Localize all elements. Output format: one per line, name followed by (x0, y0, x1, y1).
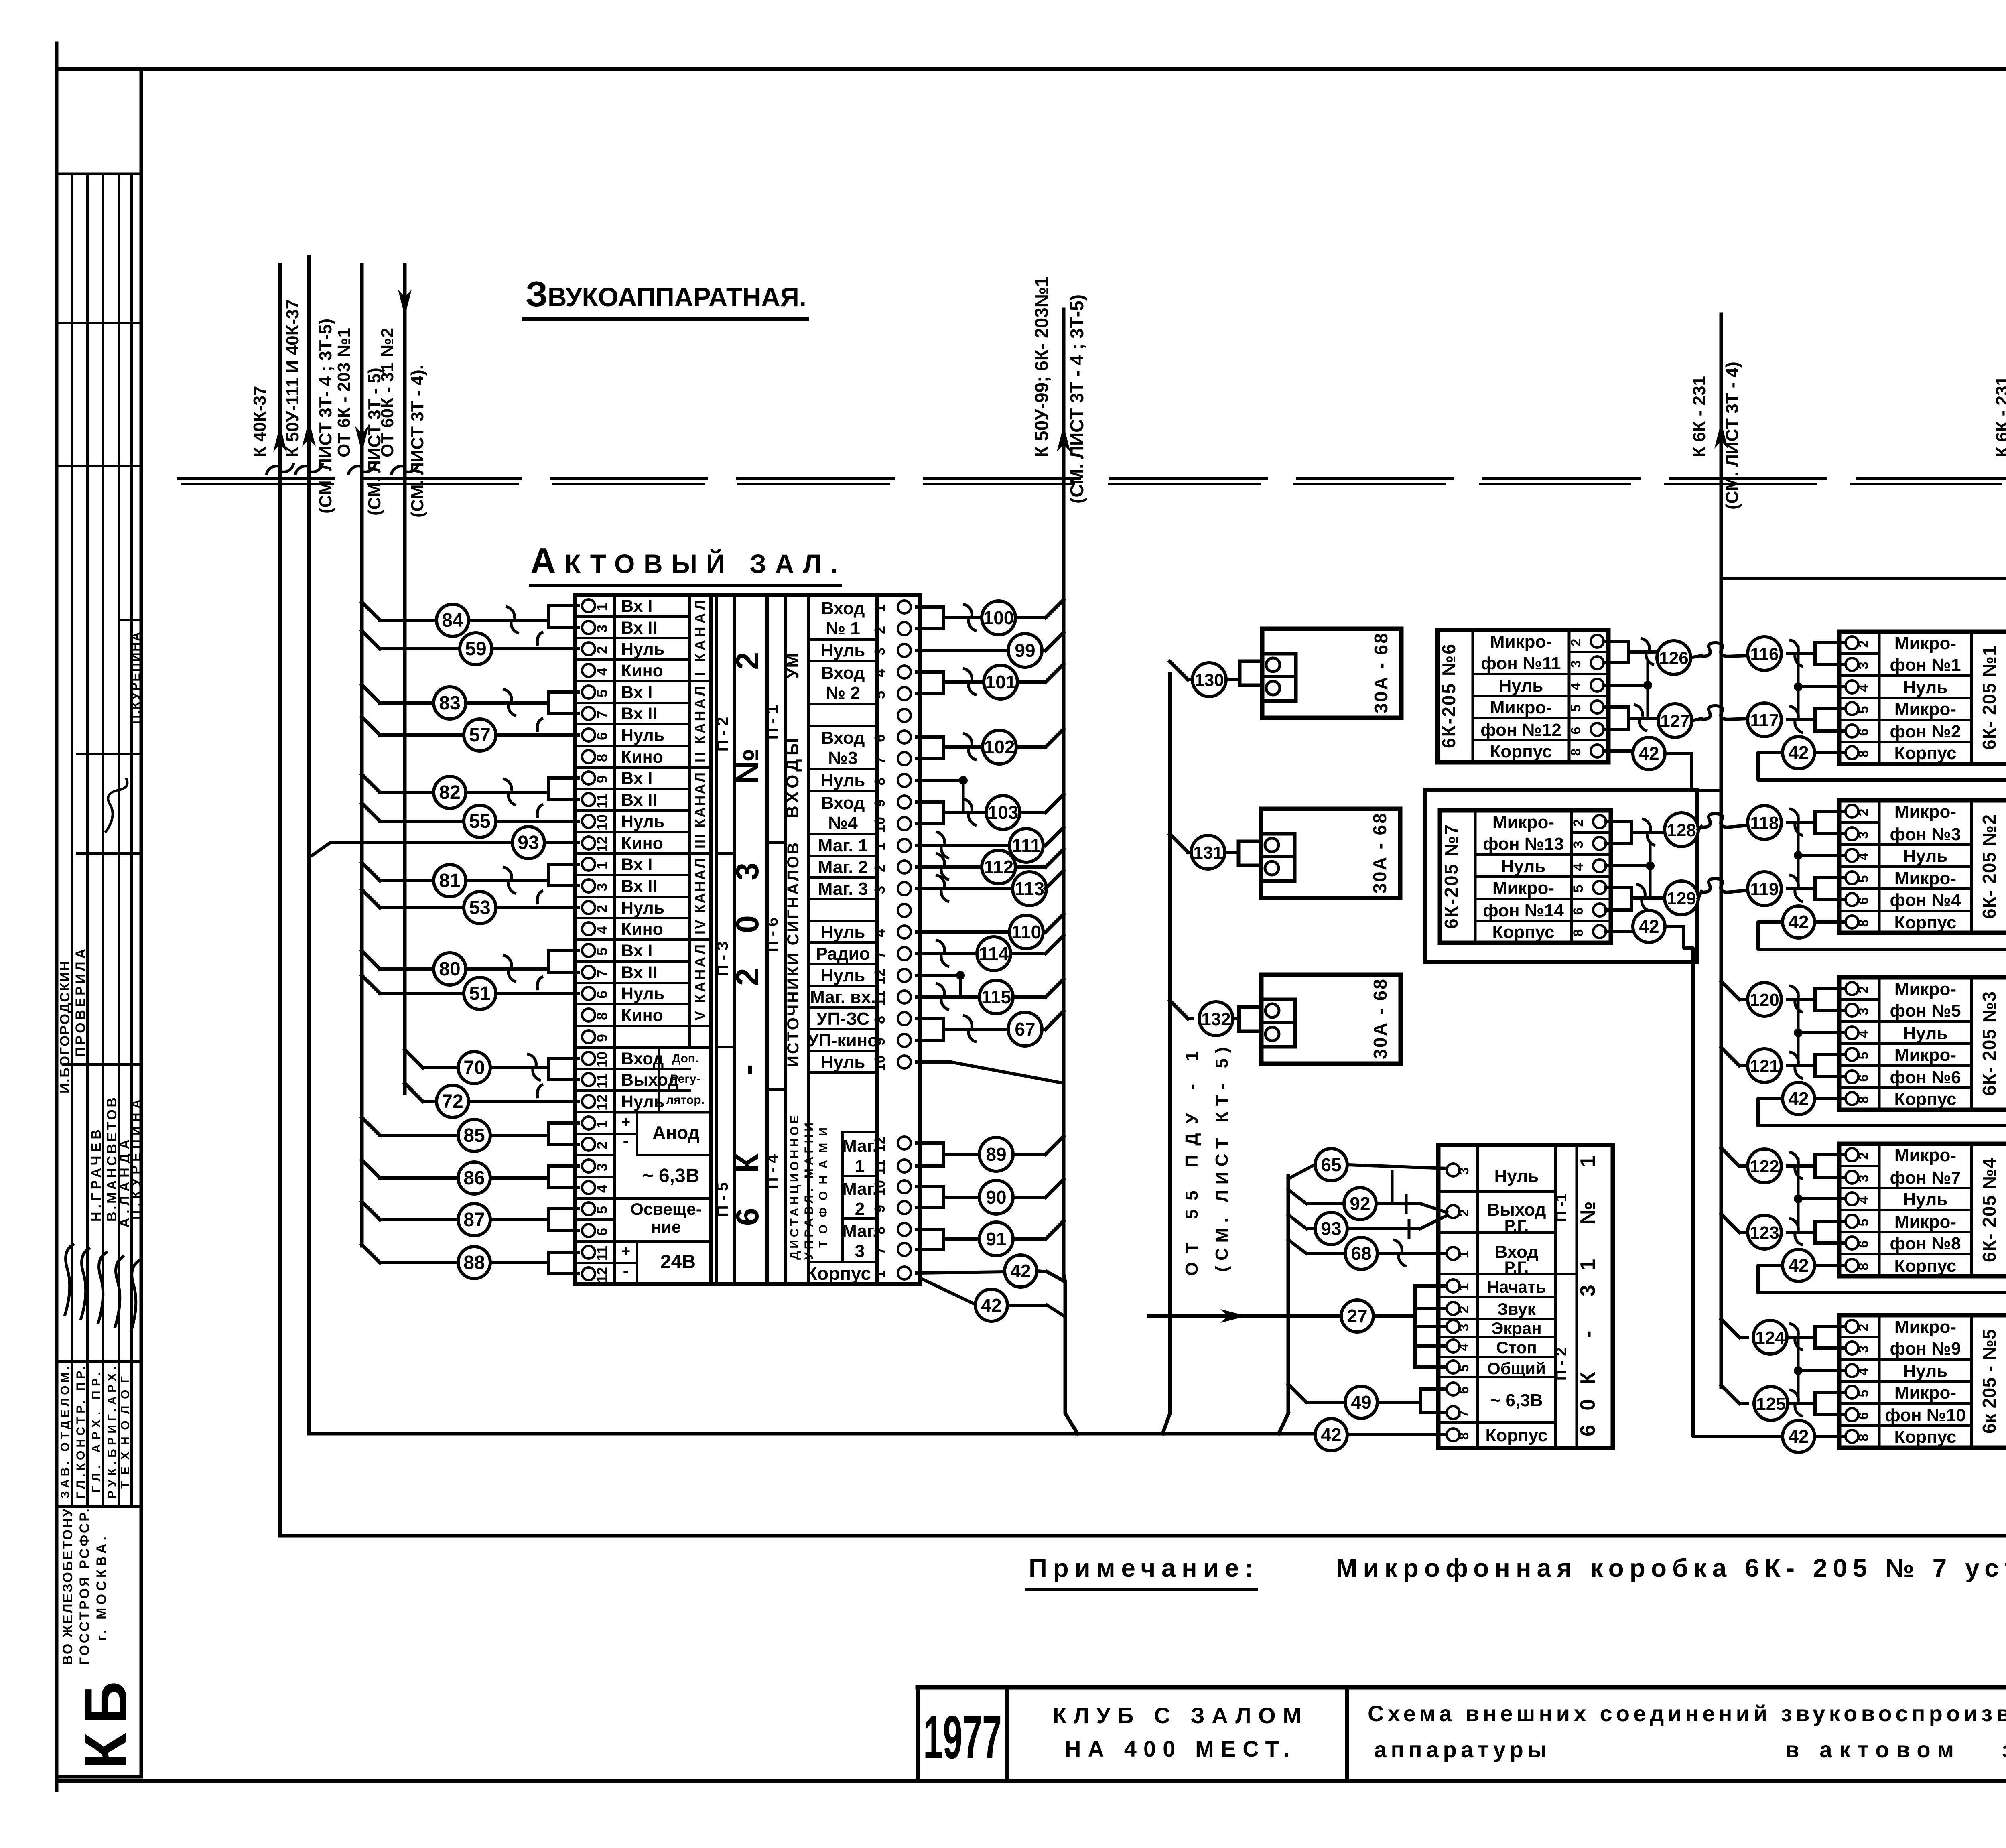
wire 99 (916, 632, 1064, 667)
svg-text:Стоп: Стоп (1496, 1338, 1537, 1357)
svg-text:Корпус: Корпус (1894, 913, 1956, 932)
wire 118 (1748, 806, 1846, 839)
svg-text:Нуль: Нуль (621, 726, 664, 745)
svg-text:г. МОСКВА.: г. МОСКВА. (94, 1537, 109, 1641)
svg-text:6: 6 (1856, 1412, 1871, 1420)
svg-text:10: 10 (871, 1180, 888, 1196)
svg-text:5: 5 (594, 689, 610, 697)
svg-text:2: 2 (1856, 809, 1871, 816)
svg-text:93: 93 (1321, 1218, 1341, 1239)
svg-text:Кино: Кино (621, 661, 663, 680)
svg-text:Вх II: Вх II (621, 790, 657, 810)
svg-text:6К- 205 №3: 6К- 205 №3 (1979, 991, 2000, 1096)
local cable trunk to 60K-31 (1279, 1176, 1288, 1434)
svg-text:Корпус: Корпус (1485, 1426, 1547, 1445)
svg-text:П - 2: П - 2 (714, 717, 731, 752)
svg-text:Нуль: Нуль (621, 640, 664, 659)
svg-text:УП-ЗС: УП-ЗС (816, 1009, 869, 1029)
svg-text:4: 4 (1456, 1343, 1472, 1351)
wire 88 (362, 1245, 578, 1279)
wire 112 (916, 849, 1064, 884)
wire 93 (kino) (312, 827, 578, 859)
svg-text:55: 55 (469, 811, 490, 832)
svg-text:Кино: Кино (621, 834, 663, 853)
svg-text:116: 116 (1750, 644, 1779, 664)
cable K 6K-231 (left) (1689, 314, 1742, 578)
svg-text:8: 8 (1456, 1432, 1472, 1440)
wire 110 (916, 914, 1064, 949)
svg-text:51: 51 (469, 983, 490, 1004)
svg-text:фон №13: фон №13 (1483, 834, 1564, 854)
svg-text:65: 65 (1321, 1154, 1341, 1175)
svg-text:132: 132 (1201, 1009, 1230, 1029)
svg-text:5: 5 (594, 948, 610, 956)
svg-text:27: 27 (1347, 1306, 1367, 1326)
wire 84 (362, 602, 578, 636)
loudspeaker box 30A-68 no.3 (1239, 975, 1401, 1064)
svg-text:Кино: Кино (621, 920, 663, 939)
svg-text:4: 4 (1568, 682, 1584, 690)
svg-text:4: 4 (594, 1185, 610, 1193)
svg-text:4: 4 (594, 668, 610, 676)
wire 121 (1748, 1049, 1846, 1082)
svg-text:2: 2 (871, 864, 888, 872)
svg-text:8: 8 (1856, 750, 1871, 758)
svg-text:Микро-: Микро- (1894, 634, 1956, 653)
svg-text:ВХОДЫ: ВХОДЫ (783, 738, 802, 818)
svg-text:1: 1 (855, 1156, 865, 1176)
svg-text:42: 42 (1639, 743, 1659, 764)
svg-text:1977: 1977 (923, 1703, 1002, 1771)
wire link 126-116 (1691, 643, 1748, 658)
svg-text:125: 125 (1756, 1394, 1785, 1414)
svg-text:3: 3 (871, 886, 888, 894)
svg-text:8: 8 (1571, 929, 1586, 937)
svg-text:42: 42 (1321, 1424, 1341, 1445)
wire 59 (362, 631, 578, 665)
svg-text:Корпус: Корпус (1894, 1089, 1956, 1109)
svg-text:П - 5: П - 5 (714, 1182, 731, 1217)
svg-text:К 50У-111 И 40К-37: К 50У-111 И 40К-37 (283, 299, 303, 457)
svg-text:6: 6 (1856, 897, 1871, 905)
svg-text:90: 90 (986, 1187, 1006, 1208)
svg-text:фон №12: фон №12 (1480, 720, 1561, 740)
svg-text:126: 126 (1659, 648, 1688, 668)
svg-text:102: 102 (984, 737, 1015, 757)
wire 117 (1748, 703, 1846, 737)
svg-text:3: 3 (594, 1163, 610, 1171)
room label Звукоаппаратная (524, 274, 807, 319)
svg-text:8: 8 (1856, 920, 1871, 927)
svg-text:99: 99 (1015, 640, 1035, 661)
cable from 6K-203 N1 (334, 265, 384, 1246)
svg-text:Нуль: Нуль (621, 984, 664, 1003)
svg-text:8: 8 (1856, 1096, 1871, 1104)
svg-text:Микро-: Микро- (1894, 1317, 1956, 1337)
svg-text:Нуль: Нуль (621, 898, 664, 918)
svg-text:Вход: Вход (821, 793, 865, 813)
wire 126 (1604, 638, 1691, 674)
P-5 power cells (Anod, 6.3V, lighting, 24V) (615, 1112, 711, 1284)
trunk for 30A-68 boxes (1163, 674, 1170, 1434)
svg-text:84: 84 (442, 610, 463, 631)
microphone box 6K-205 N7 (installed in foyer) (1425, 790, 1697, 962)
wire 68 (1288, 1237, 1447, 1269)
wire 129 (1606, 881, 1698, 915)
ground bus wire 42 into 60K-31 (309, 1419, 1447, 1451)
wire link 129-119 (1698, 879, 1748, 898)
svg-text:Корпус: Корпус (1894, 743, 1956, 763)
svg-text:8: 8 (1856, 1263, 1871, 1271)
svg-text:И.БОГОРОДСКИН: И.БОГОРОДСКИН (57, 961, 73, 1093)
svg-text:3: 3 (1571, 841, 1586, 849)
wire 89 (916, 1136, 1064, 1171)
cable K 40K-37 (250, 265, 294, 485)
svg-text:88: 88 (463, 1252, 485, 1273)
svg-text:118: 118 (1750, 813, 1779, 833)
ground wire 42 from trunk (920, 1278, 1064, 1321)
svg-text:6: 6 (1856, 1074, 1871, 1082)
svg-text:42: 42 (1788, 742, 1809, 763)
svg-text:3: 3 (1856, 1346, 1871, 1353)
svg-text:5: 5 (1856, 875, 1871, 883)
svg-text:Вход: Вход (621, 1049, 664, 1068)
cable K 50U-111 and 40K-37 (283, 257, 335, 1434)
svg-text:Микро-: Микро- (1894, 1212, 1956, 1232)
svg-text:№ 1: № 1 (826, 619, 860, 638)
svg-text:Микро-: Микро- (1894, 1145, 1956, 1165)
plug labels P-1 P-6 P-4 column (763, 705, 786, 1189)
cable K 50U-99; 6K-203 N1 (1031, 276, 1087, 1275)
svg-text:10: 10 (594, 814, 610, 831)
svg-text:6: 6 (594, 732, 610, 740)
svg-text:Р.Г.: Р.Г. (1504, 1259, 1529, 1276)
svg-text:1: 1 (871, 843, 888, 851)
svg-text:+: + (621, 1114, 630, 1131)
svg-text:5: 5 (1856, 1052, 1871, 1060)
svg-text:7: 7 (871, 951, 888, 959)
svg-text:(СМ. ЛИСТ 3Т - 4): (СМ. ЛИСТ 3Т - 4) (1722, 361, 1742, 510)
null junction to 103 (916, 776, 968, 812)
svg-text:42: 42 (1788, 1255, 1809, 1276)
svg-text:1: 1 (871, 604, 888, 612)
ground wire 42 of 6К- 205 №1 (1758, 737, 2006, 780)
ground wire 42 of 6К- 205 №4 (1758, 1249, 2006, 1293)
svg-text:103: 103 (988, 802, 1019, 823)
svg-text:фон №11: фон №11 (1481, 654, 1561, 673)
svg-text:3: 3 (594, 625, 610, 633)
svg-text:100: 100 (983, 607, 1014, 628)
svg-text:6: 6 (1568, 727, 1584, 735)
svg-text:7: 7 (594, 969, 610, 977)
svg-text:Корпус: Корпус (1894, 1427, 1956, 1447)
svg-text:8: 8 (1568, 749, 1584, 756)
svg-text:2: 2 (1571, 819, 1586, 827)
cable from 60K-31 N2 (378, 265, 427, 1093)
svg-text:П -1: П -1 (1553, 1193, 1570, 1222)
svg-text:6К-205 №6: 6К-205 №6 (1438, 644, 1459, 748)
svg-text:6к 205 - №5: 6к 205 - №5 (1979, 1329, 2000, 1434)
wall separator between rooms (dashed break lines) (177, 479, 2006, 484)
svg-text:127: 127 (1660, 711, 1689, 731)
svg-text:3: 3 (1568, 660, 1584, 668)
svg-text:8: 8 (871, 1016, 888, 1024)
ground wire 42 of 6К- 205 №2 (1758, 906, 2006, 949)
svg-text:-: - (623, 1131, 629, 1151)
svg-text:Нуль: Нуль (1903, 1024, 1948, 1043)
wire 116 (1748, 637, 1846, 670)
svg-text:2: 2 (594, 646, 610, 654)
svg-text:10: 10 (871, 1055, 888, 1071)
null link box 6К- 205 №2 (1794, 816, 1846, 885)
wire 67 (916, 1011, 1064, 1046)
svg-text:119: 119 (1750, 879, 1779, 899)
svg-text:5: 5 (594, 1206, 610, 1214)
svg-text:8: 8 (871, 1227, 888, 1235)
svg-text:Анод: Анод (652, 1122, 700, 1143)
svg-text:113: 113 (1015, 878, 1044, 899)
svg-text:ние: ние (651, 1217, 681, 1236)
additional regulator cell (659, 1048, 711, 1112)
svg-text:6К- 205 №4: 6К- 205 №4 (1979, 1158, 2000, 1262)
svg-text:К 40К-37: К 40К-37 (250, 386, 270, 457)
wire 87 (362, 1202, 578, 1236)
svg-text:42: 42 (1639, 916, 1659, 937)
svg-text:6К- 205 №1: 6К- 205 №1 (1979, 646, 2000, 750)
svg-text:фон №2: фон №2 (1890, 722, 1961, 741)
svg-text:Кино: Кино (621, 1006, 663, 1025)
svg-text:9: 9 (871, 799, 888, 807)
svg-text:6: 6 (594, 1228, 610, 1236)
svg-text:(СМ. ЛИСТ 3Т - 4 ; 3Т-5): (СМ. ЛИСТ 3Т - 4 ; 3Т-5) (1066, 294, 1087, 504)
right terminal rows of 6K-203 N2 (808, 596, 911, 1072)
svg-text:12: 12 (594, 1267, 610, 1283)
ground wire 42 of N6 (1604, 737, 1720, 791)
svg-text:5: 5 (1568, 705, 1584, 712)
svg-text:3: 3 (1856, 1175, 1871, 1182)
svg-text:Вх I: Вх I (621, 855, 652, 874)
wire 83 (362, 685, 578, 719)
wire 101 (916, 664, 1064, 699)
svg-text:1: 1 (1456, 1283, 1472, 1291)
svg-text:11: 11 (594, 793, 610, 808)
svg-text:42: 42 (1788, 912, 1809, 932)
wire 102 (916, 729, 1064, 764)
wire 92 (1288, 1188, 1447, 1220)
year 1977 (923, 1703, 1002, 1771)
wire 27 from PDU-1 (1148, 1286, 1447, 1367)
svg-text:Вход: Вход (821, 663, 865, 683)
microphone box 6к 205 - №5 (1839, 1315, 2006, 1448)
svg-text:117: 117 (1750, 711, 1779, 730)
svg-text:Вход: Вход (821, 728, 865, 748)
svg-text:фон №5: фон №5 (1890, 1001, 1961, 1021)
wire 51 (362, 975, 578, 1009)
svg-text:2: 2 (1456, 1306, 1472, 1314)
wire 81 (362, 863, 578, 897)
svg-text:Корпус: Корпус (1492, 922, 1554, 942)
svg-text:123: 123 (1750, 1223, 1779, 1243)
svg-text:Нуль: Нуль (821, 1052, 865, 1072)
wire 91 (916, 1221, 1064, 1256)
svg-text:Звук: Звук (1497, 1300, 1536, 1318)
svg-text:Нуль: Нуль (821, 641, 865, 660)
svg-text:УП-кино: УП-кино (808, 1031, 878, 1050)
svg-text:3: 3 (1456, 1168, 1472, 1175)
svg-text:Микро-: Микро- (1492, 812, 1554, 832)
svg-text:1: 1 (594, 603, 610, 611)
svg-text:Корпус: Корпус (806, 1263, 871, 1284)
svg-text:5: 5 (1571, 885, 1586, 893)
svg-text:П - 3: П - 3 (714, 942, 731, 977)
svg-text:57: 57 (469, 725, 490, 746)
svg-text:4: 4 (1856, 1368, 1871, 1375)
svg-text:фон №3: фон №3 (1890, 824, 1961, 844)
wire 57 (362, 717, 578, 751)
svg-text:Нуль: Нуль (1499, 676, 1543, 696)
svg-text:2: 2 (594, 905, 610, 913)
svg-text:2: 2 (1568, 639, 1584, 646)
svg-text:6: 6 (1856, 729, 1871, 736)
svg-text:Микро-: Микро- (1894, 869, 1956, 888)
wire link 128-118 (1698, 814, 1748, 830)
svg-text:12: 12 (871, 1136, 888, 1152)
svg-text:№4: №4 (828, 813, 858, 833)
svg-text:Микро-: Микро- (1490, 698, 1552, 717)
wire link 127-117 (1692, 706, 1748, 721)
wire 55 (362, 803, 578, 837)
svg-text:Вх II: Вх II (621, 877, 657, 896)
svg-text:81: 81 (439, 870, 460, 892)
svg-text:Вх I: Вх I (621, 597, 652, 616)
wire 115 (916, 979, 1064, 1014)
svg-text:4: 4 (871, 929, 888, 937)
right bottom rows Mag.1-3 / Korpus (806, 1107, 911, 1284)
svg-text:Нуль: Нуль (1903, 846, 1948, 866)
svg-text:№3: №3 (828, 748, 858, 768)
svg-text:42: 42 (1010, 1261, 1031, 1281)
svg-text:Микро-: Микро- (1490, 632, 1552, 652)
svg-text:Микро-: Микро- (1894, 1383, 1956, 1403)
svg-text:лятор.: лятор. (666, 1093, 705, 1107)
svg-text:Микро-: Микро- (1894, 699, 1956, 719)
svg-text:5: 5 (1856, 1219, 1871, 1227)
object name (1053, 1703, 1301, 1761)
svg-text:Кино: Кино (621, 747, 663, 767)
ground trunk from N7 to N5 (1684, 926, 1730, 1436)
svg-text:3: 3 (1856, 662, 1871, 670)
svg-text:6: 6 (871, 734, 888, 742)
svg-text:111: 111 (1012, 835, 1041, 856)
svg-text:7: 7 (871, 1247, 888, 1255)
svg-text:ИСТОЧНИКИ СИГНАЛОВ: ИСТОЧНИКИ СИГНАЛОВ (784, 843, 802, 1067)
svg-text:85: 85 (463, 1125, 485, 1146)
svg-text:11: 11 (871, 1160, 888, 1175)
svg-text:Доп.: Доп. (672, 1052, 699, 1065)
title strip org name and KB logo (60, 1508, 139, 1769)
microphone box 6K-205 N6 (1437, 630, 1608, 762)
wire 122 (1748, 1149, 1846, 1183)
svg-text:30А - 68: 30А - 68 (1370, 979, 1391, 1059)
svg-text:3: 3 (855, 1241, 865, 1261)
svg-text:Нуль: Нуль (621, 812, 664, 831)
svg-text:2: 2 (1856, 640, 1871, 648)
svg-text:фон №14: фон №14 (1483, 901, 1564, 920)
svg-text:4: 4 (1856, 1030, 1871, 1038)
svg-text:42: 42 (1788, 1088, 1809, 1109)
svg-text:Нуль: Нуль (821, 771, 865, 790)
svg-text:Микро-: Микро- (1894, 802, 1956, 822)
svg-text:№ 2: № 2 (826, 683, 860, 703)
svg-text:1: 1 (594, 1120, 610, 1128)
svg-text:4: 4 (871, 669, 888, 677)
svg-text:129: 129 (1667, 889, 1696, 908)
svg-text:Экран: Экран (1491, 1319, 1541, 1338)
svg-text:ВО ЖЕЛЕЗОБЕТОНУ: ВО ЖЕЛЕЗОБЕТОНУ (60, 1508, 75, 1665)
svg-text:(СМ. ЛИСТ 3Т - 4).: (СМ. ЛИСТ 3Т - 4). (408, 365, 427, 518)
svg-text:68: 68 (1351, 1243, 1371, 1264)
svg-text:Вх I: Вх I (621, 769, 652, 788)
svg-text:Нуль: Нуль (1501, 857, 1546, 876)
svg-text:Вх I: Вх I (621, 683, 652, 702)
svg-text:115: 115 (981, 987, 1011, 1007)
svg-text:фон №8: фон №8 (1890, 1234, 1961, 1253)
svg-text:2: 2 (1856, 986, 1871, 994)
svg-text:124: 124 (1755, 1328, 1785, 1348)
svg-text:IV КАНАЛ: IV КАНАЛ (692, 858, 708, 934)
wire 130 (1170, 662, 1240, 697)
microphone box 6К- 205 №3 (1839, 977, 2006, 1110)
svg-text:9: 9 (594, 1034, 610, 1042)
svg-text:7: 7 (871, 756, 888, 764)
function labels UM inputs / signal sources / remote control (783, 653, 830, 1260)
svg-text:42: 42 (1788, 1426, 1809, 1447)
svg-text:3: 3 (1456, 1324, 1472, 1332)
svg-text:Регу-: Регу- (670, 1072, 700, 1086)
svg-text:2: 2 (594, 1141, 610, 1149)
svg-text:70: 70 (463, 1057, 485, 1078)
svg-text:3: 3 (594, 883, 610, 891)
wire 80 (362, 950, 578, 985)
note (Primechanie) (1027, 1554, 2006, 1590)
ground wire 42 of 6к 205 - №5 (1729, 1420, 1846, 1452)
svg-text:5: 5 (1856, 1390, 1871, 1397)
svg-text:5: 5 (1856, 706, 1871, 714)
svg-text:4: 4 (1856, 853, 1871, 860)
null link N7 (1606, 843, 1655, 898)
title strip rotated names and titles (57, 632, 143, 1499)
svg-text:Вх II: Вх II (621, 963, 657, 982)
svg-text:Нуль: Нуль (1903, 678, 1948, 697)
svg-text:Вход: Вход (821, 599, 865, 618)
svg-text:83: 83 (439, 692, 460, 714)
svg-text:УМ: УМ (783, 653, 802, 679)
null wire below 67 (916, 1062, 1064, 1083)
wire 119 (1748, 872, 1846, 906)
svg-text:П - 2: П - 2 (1553, 1348, 1570, 1381)
ground wire 42 of N7 (1606, 910, 1693, 948)
svg-text:ОТ 60К - 31 №2: ОТ 60К - 31 №2 (378, 328, 397, 457)
svg-text:Нуль: Нуль (821, 966, 865, 985)
wire 70 (405, 1050, 578, 1084)
svg-text:49: 49 (1351, 1392, 1371, 1413)
null link N6 (1604, 663, 1652, 718)
svg-text:128: 128 (1667, 820, 1696, 840)
svg-text:К 6К - 231: К 6К - 231 (1992, 376, 2006, 457)
null link box 6к 205 - №5 (1794, 1331, 1846, 1399)
svg-text:89: 89 (986, 1144, 1006, 1165)
wire 123 (1748, 1215, 1846, 1249)
